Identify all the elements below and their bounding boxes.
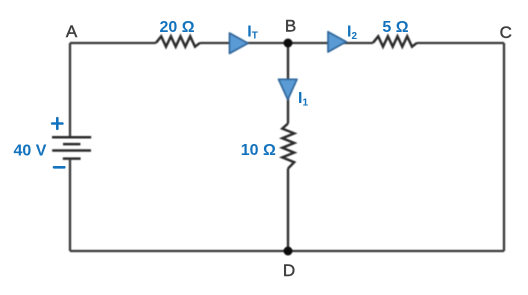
battery minus sign <box>54 166 64 169</box>
wire bottom D run <box>70 250 504 252</box>
battery V1 40V <box>52 137 91 158</box>
wire top A-B-C <box>70 42 504 44</box>
wire battery to bottom-left corner <box>69 159 71 251</box>
wire middle vertical B to D <box>287 43 289 251</box>
svg-text:IT: IT <box>247 23 258 41</box>
svg-text:I1: I1 <box>298 90 308 109</box>
svg-text:5 Ω: 5 Ω <box>382 19 408 36</box>
current arrow I2 <box>328 32 346 52</box>
wire right vertical C <box>503 43 505 251</box>
current arrow IT <box>230 33 249 54</box>
svg-text:10 Ω: 10 Ω <box>241 142 276 159</box>
battery plus sign <box>52 118 62 129</box>
current arrow I1 <box>279 79 298 99</box>
svg-text:I2: I2 <box>347 24 357 43</box>
node D junction dot <box>284 247 293 256</box>
svg-text:20 Ω: 20 Ω <box>159 19 194 36</box>
node B junction dot <box>284 39 293 48</box>
resistor R3 10 Ohm <box>282 124 294 169</box>
resistor R2 5 Ohm <box>373 36 417 46</box>
resistor R1 20 Ohm <box>156 36 200 46</box>
svg-text:C: C <box>500 23 512 42</box>
svg-text:D: D <box>283 261 295 280</box>
svg-text:B: B <box>285 16 296 35</box>
svg-text:40 V: 40 V <box>14 143 47 160</box>
svg-text:A: A <box>66 22 78 41</box>
wire left vertical A to battery <box>69 43 71 137</box>
